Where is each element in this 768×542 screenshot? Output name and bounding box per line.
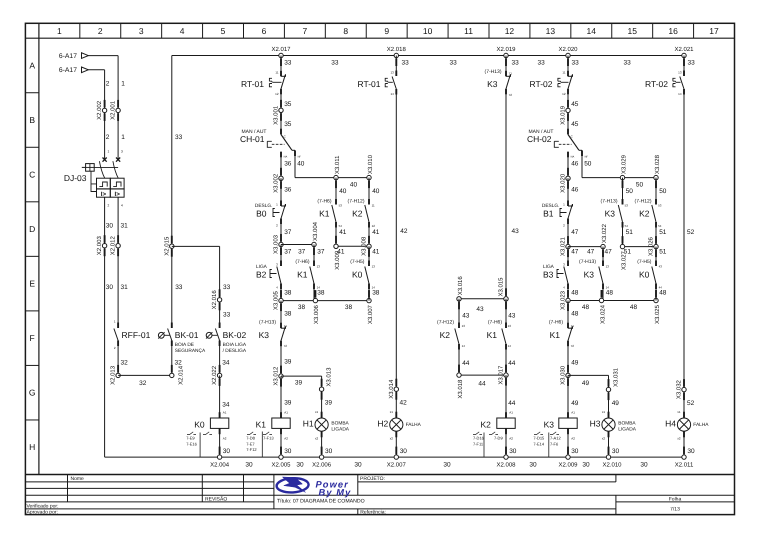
svg-text:30: 30 — [443, 462, 451, 469]
svg-text:14: 14 — [390, 92, 394, 96]
svg-text:7-D15: 7-D15 — [533, 436, 545, 441]
svg-text:X3.032: X3.032 — [676, 379, 683, 399]
svg-text:34: 34 — [222, 359, 230, 366]
svg-text:DESLG.: DESLG. — [542, 203, 560, 209]
svg-text:X3.030: X3.030 — [560, 365, 567, 385]
svg-text:H: H — [29, 442, 35, 452]
svg-text:50: 50 — [626, 188, 634, 195]
svg-text:12: 12 — [275, 92, 279, 96]
svg-text:14: 14 — [678, 92, 682, 96]
svg-text:41: 41 — [339, 229, 347, 236]
svg-text:NA: NA — [571, 155, 575, 158]
svg-text:72: 72 — [509, 93, 513, 97]
svg-text:48: 48 — [571, 290, 579, 297]
svg-text:X2.020: X2.020 — [558, 46, 578, 53]
svg-text:48: 48 — [659, 290, 667, 297]
svg-text:72: 72 — [284, 344, 288, 348]
svg-text:51: 51 — [624, 248, 632, 255]
svg-text:7: 7 — [302, 26, 307, 36]
svg-text:X2.014: X2.014 — [177, 365, 184, 385]
svg-text:30: 30 — [687, 448, 695, 455]
svg-text:49: 49 — [571, 400, 579, 407]
svg-text:K2: K2 — [639, 209, 650, 219]
svg-text:FALHA: FALHA — [693, 422, 709, 428]
svg-text:7/13: 7/13 — [670, 506, 680, 512]
svg-text:71: 71 — [571, 324, 575, 328]
svg-text:5: 5 — [221, 26, 226, 36]
svg-text:F: F — [30, 333, 35, 343]
svg-text:39: 39 — [284, 359, 292, 366]
svg-text:H3: H3 — [590, 419, 601, 429]
svg-text:3: 3 — [121, 149, 123, 153]
svg-text:X2.006: X2.006 — [312, 462, 332, 469]
svg-text:X3.026: X3.026 — [648, 236, 655, 256]
svg-text:A2: A2 — [571, 437, 575, 441]
svg-text:41: 41 — [372, 229, 380, 236]
svg-text:14: 14 — [508, 344, 512, 348]
svg-text:X3.021: X3.021 — [560, 236, 567, 256]
svg-text:X3.029: X3.029 — [620, 154, 627, 174]
svg-text:H1: H1 — [303, 419, 314, 429]
svg-text:2: 2 — [106, 80, 110, 87]
svg-text:46: 46 — [571, 160, 579, 167]
svg-text:E: E — [29, 279, 35, 289]
svg-text:47: 47 — [571, 229, 579, 236]
svg-text:K0: K0 — [639, 269, 650, 279]
svg-text:13: 13 — [678, 71, 682, 75]
svg-text:49: 49 — [612, 400, 620, 407]
svg-text:By My: By My — [319, 487, 352, 497]
svg-text:48: 48 — [630, 304, 638, 311]
svg-text:12: 12 — [505, 26, 515, 36]
svg-text:D: D — [29, 224, 35, 234]
svg-text:51: 51 — [659, 229, 667, 236]
svg-text:37: 37 — [317, 248, 325, 255]
svg-text:38: 38 — [298, 304, 306, 311]
svg-text:43: 43 — [462, 313, 470, 320]
svg-text:52: 52 — [687, 400, 695, 407]
svg-text:X2.010: X2.010 — [602, 462, 622, 469]
svg-text:7-F13: 7-F13 — [263, 436, 274, 441]
svg-text:(7-H6): (7-H6) — [488, 320, 503, 326]
svg-text:8: 8 — [343, 26, 348, 36]
svg-text:13: 13 — [546, 26, 556, 36]
svg-text:44: 44 — [508, 400, 516, 407]
svg-text:7-E7: 7-E7 — [246, 441, 255, 446]
svg-text:Aprovado por:: Aprovado por: — [27, 510, 58, 516]
svg-text:B0: B0 — [256, 209, 267, 219]
svg-text:30: 30 — [571, 448, 579, 455]
svg-text:X2.012: X2.012 — [110, 236, 117, 256]
svg-text:53: 53 — [339, 204, 343, 208]
svg-text:50: 50 — [584, 160, 592, 167]
svg-text:x1: x1 — [390, 410, 394, 414]
svg-text:K1: K1 — [319, 209, 330, 219]
svg-text:50: 50 — [636, 182, 644, 189]
svg-text:30: 30 — [245, 462, 253, 469]
svg-text:RFF-01: RFF-01 — [122, 330, 151, 340]
svg-text:LIGA: LIGA — [256, 264, 268, 270]
svg-text:LIGADA: LIGADA — [331, 427, 349, 433]
svg-text:X2.001: X2.001 — [110, 100, 117, 120]
svg-text:13: 13 — [508, 324, 512, 328]
svg-text:(7-H13): (7-H13) — [579, 259, 596, 265]
svg-text:33: 33 — [175, 284, 183, 291]
svg-text:K0: K0 — [194, 419, 205, 429]
svg-text:32: 32 — [139, 380, 147, 387]
svg-text:48: 48 — [571, 311, 579, 318]
svg-text:43: 43 — [659, 265, 663, 269]
svg-text:A: A — [29, 60, 35, 70]
svg-text:X2.004: X2.004 — [210, 462, 230, 469]
svg-text:X2.018: X2.018 — [387, 46, 407, 53]
svg-text:33: 33 — [284, 59, 292, 66]
svg-text:51: 51 — [659, 248, 667, 255]
svg-text:13: 13 — [462, 324, 466, 328]
svg-text:45: 45 — [571, 101, 579, 108]
svg-text:B: B — [29, 115, 35, 125]
svg-text:7-D9: 7-D9 — [494, 436, 503, 441]
svg-text:Referência:: Referência: — [360, 510, 386, 516]
svg-text:35: 35 — [284, 121, 292, 128]
svg-text:C: C — [29, 170, 35, 180]
svg-text:7-E16: 7-E16 — [186, 441, 197, 446]
svg-text:X2.007: X2.007 — [387, 462, 407, 469]
svg-text:6: 6 — [262, 26, 267, 36]
svg-text:(7-H13): (7-H13) — [485, 69, 502, 75]
svg-text:50: 50 — [659, 188, 667, 195]
svg-text:A2: A2 — [284, 437, 288, 441]
svg-text:K2: K2 — [352, 209, 363, 219]
svg-text:(7-H13): (7-H13) — [601, 199, 618, 205]
svg-text:33: 33 — [624, 59, 632, 66]
svg-text:X3.003: X3.003 — [273, 234, 280, 254]
svg-text:49: 49 — [571, 360, 579, 367]
svg-text:13: 13 — [317, 265, 321, 269]
svg-text:2: 2 — [98, 26, 103, 36]
svg-text:48: 48 — [606, 290, 614, 297]
svg-text:X3.022: X3.022 — [601, 223, 608, 243]
svg-text:7-F6: 7-F6 — [550, 441, 559, 446]
svg-text:33: 33 — [688, 59, 696, 66]
svg-text:X3.019: X3.019 — [560, 105, 567, 125]
svg-text:30: 30 — [223, 448, 231, 455]
svg-text:40: 40 — [372, 188, 380, 195]
svg-text:X2.009: X2.009 — [558, 462, 578, 469]
svg-text:6-A17: 6-A17 — [59, 53, 77, 60]
svg-text:3: 3 — [139, 26, 144, 36]
svg-text:X2.021: X2.021 — [674, 46, 694, 53]
svg-text:A1: A1 — [509, 411, 513, 415]
svg-text:34: 34 — [222, 402, 230, 409]
svg-text:39: 39 — [295, 380, 303, 387]
svg-text:13: 13 — [390, 71, 394, 75]
svg-text:53: 53 — [658, 204, 662, 208]
svg-text:2: 2 — [106, 134, 110, 141]
svg-text:Verificado por:: Verificado por: — [27, 503, 59, 509]
svg-text:K3: K3 — [259, 330, 270, 340]
svg-text:x2: x2 — [677, 436, 681, 440]
svg-text:A2: A2 — [509, 437, 513, 441]
svg-text:43: 43 — [512, 228, 520, 235]
svg-text:x1: x1 — [315, 410, 319, 414]
svg-text:K1: K1 — [297, 269, 308, 279]
svg-text:39: 39 — [325, 400, 333, 407]
svg-text:X3.023: X3.023 — [560, 290, 567, 310]
svg-text:K0: K0 — [352, 269, 363, 279]
svg-text:32: 32 — [175, 359, 183, 366]
svg-text:X2.015: X2.015 — [163, 236, 170, 256]
svg-text:30: 30 — [325, 448, 333, 455]
svg-text:I>: I> — [115, 191, 121, 198]
svg-text:SEGURANÇA: SEGURANÇA — [175, 348, 206, 354]
svg-text:40: 40 — [339, 188, 347, 195]
svg-text:BK-01: BK-01 — [175, 330, 199, 340]
svg-text:12: 12 — [372, 224, 376, 228]
svg-text:38: 38 — [345, 304, 353, 311]
svg-text:K1: K1 — [550, 330, 561, 340]
svg-text:BOMBA: BOMBA — [618, 420, 636, 426]
svg-text:49: 49 — [582, 380, 590, 387]
svg-text:X3.004: X3.004 — [312, 221, 319, 241]
svg-text:NF: NF — [585, 155, 589, 158]
svg-text:7-F12: 7-F12 — [246, 447, 257, 452]
svg-text:X3.008: X3.008 — [361, 236, 368, 256]
svg-text:X2.003: X2.003 — [96, 236, 103, 256]
svg-text:30: 30 — [296, 462, 304, 469]
svg-text:K3: K3 — [584, 269, 595, 279]
svg-text:X3.002: X3.002 — [273, 173, 280, 193]
svg-text:38: 38 — [284, 311, 292, 318]
svg-text:x1: x1 — [677, 410, 681, 414]
svg-text:54: 54 — [339, 224, 343, 228]
svg-text:DJ-03: DJ-03 — [64, 173, 87, 183]
svg-text:30: 30 — [284, 448, 292, 455]
svg-text:42: 42 — [400, 228, 408, 235]
svg-text:30: 30 — [640, 462, 648, 469]
svg-text:6-A17: 6-A17 — [59, 67, 77, 74]
svg-text:47: 47 — [605, 248, 613, 255]
svg-text:X3.031: X3.031 — [613, 367, 620, 387]
svg-text:33: 33 — [572, 59, 580, 66]
svg-text:X3.016: X3.016 — [457, 276, 464, 296]
svg-text:A2: A2 — [223, 437, 227, 441]
svg-text:REVISÃO: REVISÃO — [205, 495, 227, 502]
svg-text:11: 11 — [372, 204, 375, 208]
svg-text:K3: K3 — [544, 419, 555, 429]
svg-text:BOMBA: BOMBA — [331, 420, 349, 426]
svg-text:X3.013: X3.013 — [326, 367, 333, 387]
svg-text:33: 33 — [402, 59, 410, 66]
svg-text:B2: B2 — [256, 269, 267, 279]
svg-text:X3.015: X3.015 — [498, 277, 505, 297]
svg-text:2: 2 — [108, 204, 110, 208]
svg-text:Título: 07 DIAGRAMA DE COMANDO: Título: 07 DIAGRAMA DE COMANDO — [277, 498, 365, 504]
svg-text:A1: A1 — [284, 411, 288, 415]
svg-text:x2: x2 — [390, 436, 394, 440]
svg-text:(7-H12): (7-H12) — [437, 320, 454, 326]
svg-text:X3.001: X3.001 — [273, 105, 280, 125]
svg-text:(7-H5): (7-H5) — [637, 259, 652, 265]
svg-text:X3.017: X3.017 — [498, 365, 505, 385]
svg-text:C: C — [284, 135, 286, 139]
svg-text:38: 38 — [317, 290, 325, 297]
svg-text:7-A12: 7-A12 — [550, 436, 561, 441]
svg-text:44: 44 — [478, 381, 486, 388]
svg-text:48: 48 — [582, 304, 590, 311]
svg-text:LIGA: LIGA — [543, 264, 555, 270]
svg-text:33: 33 — [450, 59, 458, 66]
svg-text:9: 9 — [384, 26, 389, 36]
svg-text:33: 33 — [538, 59, 546, 66]
svg-text:30: 30 — [400, 448, 408, 455]
svg-text:CH-01: CH-01 — [240, 134, 265, 144]
svg-text:X2.005: X2.005 — [271, 462, 291, 469]
svg-text:H4: H4 — [665, 419, 676, 429]
svg-text:1: 1 — [121, 80, 125, 87]
svg-text:7-D8: 7-D8 — [246, 436, 255, 441]
svg-text:B3: B3 — [543, 269, 554, 279]
svg-text:(7-H6): (7-H6) — [317, 199, 332, 205]
svg-text:54: 54 — [625, 224, 629, 228]
svg-text:30: 30 — [354, 462, 362, 469]
svg-text:30: 30 — [582, 462, 590, 469]
svg-text:X3.014: X3.014 — [388, 379, 395, 399]
svg-text:11: 11 — [275, 71, 278, 75]
svg-text:A1: A1 — [571, 411, 575, 415]
svg-text:15: 15 — [627, 26, 637, 36]
svg-text:1: 1 — [108, 149, 110, 153]
svg-text:41: 41 — [337, 248, 345, 255]
svg-text:NA: NA — [284, 155, 288, 158]
svg-text:30: 30 — [529, 462, 537, 469]
svg-text:X2.017: X2.017 — [271, 46, 291, 53]
svg-text:41: 41 — [372, 248, 380, 255]
svg-text:X3.007: X3.007 — [367, 304, 374, 324]
svg-text:Folha: Folha — [669, 497, 682, 503]
svg-text:/ DESLIGA: / DESLIGA — [223, 348, 247, 354]
svg-text:13: 13 — [372, 265, 376, 269]
svg-text:X3.010: X3.010 — [367, 154, 374, 174]
svg-text:X3.028: X3.028 — [654, 154, 661, 174]
svg-text:37: 37 — [298, 248, 306, 255]
svg-text:71: 71 — [284, 324, 288, 328]
svg-text:X2.011: X2.011 — [675, 462, 694, 469]
svg-text:X2.008: X2.008 — [496, 462, 516, 469]
svg-text:33: 33 — [512, 59, 520, 66]
svg-text:7-F11: 7-F11 — [473, 441, 484, 446]
svg-text:10: 10 — [423, 26, 433, 36]
svg-text:X3.024: X3.024 — [599, 304, 606, 324]
svg-text:42: 42 — [400, 400, 408, 407]
svg-text:NF: NF — [298, 155, 302, 158]
svg-text:39: 39 — [284, 400, 292, 407]
svg-text:33: 33 — [175, 134, 183, 141]
svg-text:32: 32 — [121, 359, 129, 366]
svg-text:(7-H5): (7-H5) — [350, 259, 365, 265]
svg-text:(7-H6): (7-H6) — [549, 320, 564, 326]
svg-text:LIGADA: LIGADA — [618, 427, 636, 433]
svg-text:FALHA: FALHA — [406, 422, 422, 428]
svg-text:14: 14 — [587, 26, 597, 36]
svg-text:DESLG.: DESLG. — [255, 203, 273, 209]
svg-text:40: 40 — [350, 182, 358, 189]
svg-text:(7-H12): (7-H12) — [635, 199, 652, 205]
svg-text:13: 13 — [606, 265, 610, 269]
svg-text:C: C — [571, 135, 573, 139]
svg-text:43: 43 — [508, 313, 516, 320]
svg-text:K1: K1 — [256, 419, 267, 429]
svg-text:X2.013: X2.013 — [110, 365, 117, 385]
svg-text:71: 71 — [509, 72, 513, 76]
svg-text:51: 51 — [626, 229, 634, 236]
svg-text:1: 1 — [57, 26, 62, 36]
svg-text:K2: K2 — [480, 419, 491, 429]
svg-text:40: 40 — [297, 160, 305, 167]
svg-text:K3: K3 — [487, 79, 498, 89]
svg-text:4: 4 — [180, 26, 185, 36]
svg-text:X3.006: X3.006 — [313, 304, 320, 324]
svg-text:X2.022: X2.022 — [211, 365, 218, 385]
svg-text:7-D16: 7-D16 — [473, 436, 485, 441]
svg-text:11: 11 — [562, 71, 565, 75]
svg-text:7-E9: 7-E9 — [186, 436, 195, 441]
svg-text:X3.018: X3.018 — [457, 379, 464, 399]
svg-text:x2: x2 — [315, 436, 319, 440]
svg-text:38: 38 — [372, 290, 380, 297]
svg-text:54: 54 — [658, 224, 662, 228]
svg-text:X2.002: X2.002 — [96, 100, 103, 120]
svg-text:52: 52 — [687, 229, 695, 236]
svg-text:33: 33 — [223, 284, 231, 291]
svg-text:31: 31 — [121, 222, 129, 229]
svg-text:7-E14: 7-E14 — [533, 441, 544, 446]
svg-text:43: 43 — [476, 306, 484, 313]
svg-text:30: 30 — [106, 222, 114, 229]
svg-text:I>: I> — [101, 191, 107, 198]
svg-text:16: 16 — [668, 26, 678, 36]
svg-text:30: 30 — [106, 284, 114, 291]
svg-text:H2: H2 — [377, 419, 388, 429]
svg-text:35: 35 — [284, 101, 292, 108]
svg-text:33: 33 — [331, 59, 339, 66]
svg-text:PROJETO:: PROJETO: — [360, 476, 385, 482]
svg-text:44: 44 — [462, 360, 470, 367]
svg-text:30: 30 — [612, 448, 620, 455]
svg-text:72: 72 — [571, 344, 575, 348]
svg-text:11: 11 — [464, 26, 473, 36]
svg-text:33: 33 — [223, 311, 231, 318]
svg-text:37: 37 — [284, 229, 292, 236]
svg-text:31: 31 — [121, 284, 129, 291]
svg-text:47: 47 — [571, 248, 579, 255]
svg-text:BOIA DE: BOIA DE — [175, 342, 194, 348]
svg-text:B1: B1 — [543, 209, 554, 219]
svg-text:K2: K2 — [440, 330, 451, 340]
svg-text:30: 30 — [509, 448, 517, 455]
svg-text:14: 14 — [462, 344, 466, 348]
svg-text:A1: A1 — [223, 411, 227, 415]
svg-text:Nome: Nome — [71, 476, 85, 482]
svg-text:BOIA LIGA: BOIA LIGA — [223, 342, 247, 348]
svg-text:RT-02: RT-02 — [530, 79, 553, 89]
svg-text:36: 36 — [284, 160, 292, 167]
svg-text:47: 47 — [587, 248, 595, 255]
svg-text:36: 36 — [284, 187, 292, 194]
svg-text:46: 46 — [571, 187, 579, 194]
svg-text:37: 37 — [284, 248, 292, 255]
svg-text:K3: K3 — [605, 209, 616, 219]
